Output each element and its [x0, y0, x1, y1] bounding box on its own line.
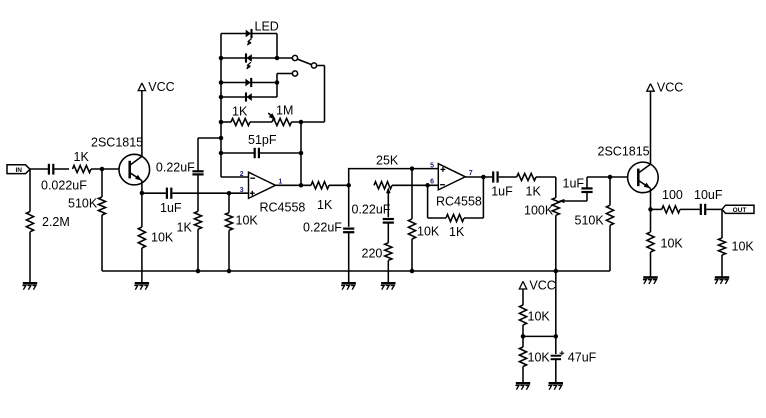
svg-text:OUT: OUT [733, 207, 747, 214]
svg-text:LED: LED [255, 20, 279, 34]
svg-text:1K: 1K [317, 198, 333, 212]
svg-text:1K: 1K [449, 225, 465, 239]
svg-text:10K: 10K [528, 310, 551, 324]
svg-text:RC4558: RC4558 [436, 195, 482, 209]
svg-text:1: 1 [278, 178, 282, 185]
svg-text:VCC: VCC [148, 80, 174, 94]
svg-text:10K: 10K [732, 240, 755, 254]
svg-text:2SC1815: 2SC1815 [91, 136, 143, 150]
svg-text:10K: 10K [151, 231, 174, 245]
svg-text:3: 3 [240, 187, 244, 194]
svg-text:6: 6 [430, 178, 434, 185]
svg-text:1uF: 1uF [563, 177, 585, 191]
svg-text:0.022uF: 0.022uF [41, 179, 87, 193]
svg-text:1uF: 1uF [160, 201, 182, 215]
svg-text:100K: 100K [524, 204, 554, 218]
svg-text:2: 2 [240, 171, 244, 178]
svg-text:10K: 10K [661, 237, 684, 251]
svg-text:2SC1815: 2SC1815 [598, 145, 650, 159]
svg-text:10uF: 10uF [694, 188, 723, 202]
svg-text:510K: 510K [575, 214, 605, 228]
svg-text:100: 100 [662, 188, 683, 202]
svg-text:1M: 1M [276, 104, 293, 118]
svg-text:RC4558: RC4558 [260, 201, 306, 215]
svg-text:7: 7 [469, 170, 473, 177]
svg-text:5: 5 [430, 162, 434, 169]
svg-text:1K: 1K [526, 185, 542, 199]
svg-text:10K: 10K [417, 225, 440, 239]
svg-text:0.22uF: 0.22uF [156, 161, 195, 175]
svg-text:1uF: 1uF [491, 185, 513, 199]
svg-text:2.2M: 2.2M [42, 215, 70, 229]
svg-text:220: 220 [362, 247, 383, 261]
svg-text:25K: 25K [376, 154, 399, 168]
svg-text:VCC: VCC [657, 81, 683, 95]
svg-text:1K: 1K [177, 221, 193, 235]
svg-text:1K: 1K [74, 150, 90, 164]
svg-text:0.22uF: 0.22uF [303, 221, 342, 235]
svg-text:10K: 10K [528, 351, 551, 365]
svg-text:10K: 10K [236, 214, 259, 228]
svg-text:51pF: 51pF [248, 133, 277, 147]
svg-text:510K: 510K [68, 197, 98, 211]
svg-text:1K: 1K [232, 105, 248, 119]
svg-text:IN: IN [15, 167, 22, 174]
svg-text:VCC: VCC [529, 278, 555, 292]
svg-text:0.22uF: 0.22uF [352, 203, 391, 217]
svg-text:47uF: 47uF [568, 351, 597, 365]
